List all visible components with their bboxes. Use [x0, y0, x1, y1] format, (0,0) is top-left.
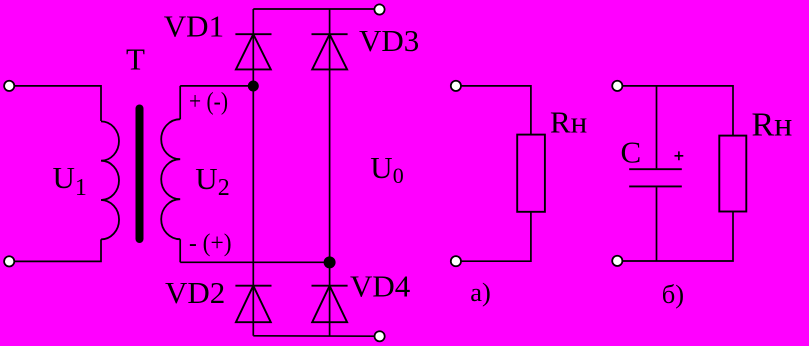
- svg-text:VD3: VD3: [359, 23, 419, 58]
- terminal: a) top: [451, 81, 461, 91]
- wire: secondary bottom to node B: [180, 261, 329, 263]
- wire: primary top from input terminal to winding: [15, 86, 102, 121]
- svg-text:+ (-): + (-): [189, 89, 228, 116]
- node A junction dot: [248, 81, 259, 92]
- terminal: b) top: [612, 81, 622, 91]
- wire: primary bottom from winding to input terminal: [15, 239, 102, 261]
- svg-text:б): б): [662, 279, 684, 309]
- circuit b) top wire: [623, 86, 733, 136]
- svg-text:VD1: VD1: [164, 9, 224, 44]
- wire: secondary vertical stubs: [179, 86, 181, 262]
- svg-text:VD2: VD2: [165, 275, 225, 310]
- terminal: output top: [374, 4, 384, 14]
- diode VD3: [312, 34, 348, 69]
- svg-text:Rн: Rн: [752, 107, 793, 144]
- capacitor C branch wires: [656, 86, 658, 261]
- svg-text:VD4: VD4: [350, 268, 411, 303]
- wire: bridge right column: [329, 9, 331, 336]
- terminal: a) bottom: [451, 256, 461, 266]
- diode VD2: [235, 286, 271, 323]
- diode VD1: [235, 34, 271, 69]
- svg-text:Rн: Rн: [550, 104, 587, 139]
- capacitor C plates: [629, 169, 682, 186]
- terminal: input bottom-left: [4, 256, 14, 266]
- terminal: b) bottom: [612, 256, 622, 266]
- circuit a) load wires: [461, 86, 531, 135]
- circuit b) bottom wire: [623, 212, 733, 262]
- resistor RH of circuit a: [517, 135, 545, 212]
- terminal: output bottom: [375, 331, 385, 341]
- diode VD4: [312, 286, 348, 323]
- wire: secondary top to node A: [180, 85, 253, 87]
- transformer T secondary winding U2: [161, 119, 180, 239]
- capacitor polarity plus sign: [675, 151, 684, 160]
- terminal: input top-left: [4, 81, 14, 91]
- svg-text:C: C: [621, 134, 642, 169]
- node B junction dot: [324, 256, 336, 268]
- resistor RH of circuit b: [719, 136, 746, 212]
- svg-text:T: T: [126, 41, 145, 76]
- transformer core bar: [136, 105, 144, 244]
- wire: bridge left column: [252, 9, 254, 336]
- transformer T primary winding U1: [101, 121, 119, 239]
- svg-text:- (+): - (+): [189, 230, 232, 257]
- wire: bottom output rail: [253, 335, 374, 337]
- svg-text:а): а): [470, 277, 491, 307]
- wire: top output rail: [253, 8, 374, 10]
